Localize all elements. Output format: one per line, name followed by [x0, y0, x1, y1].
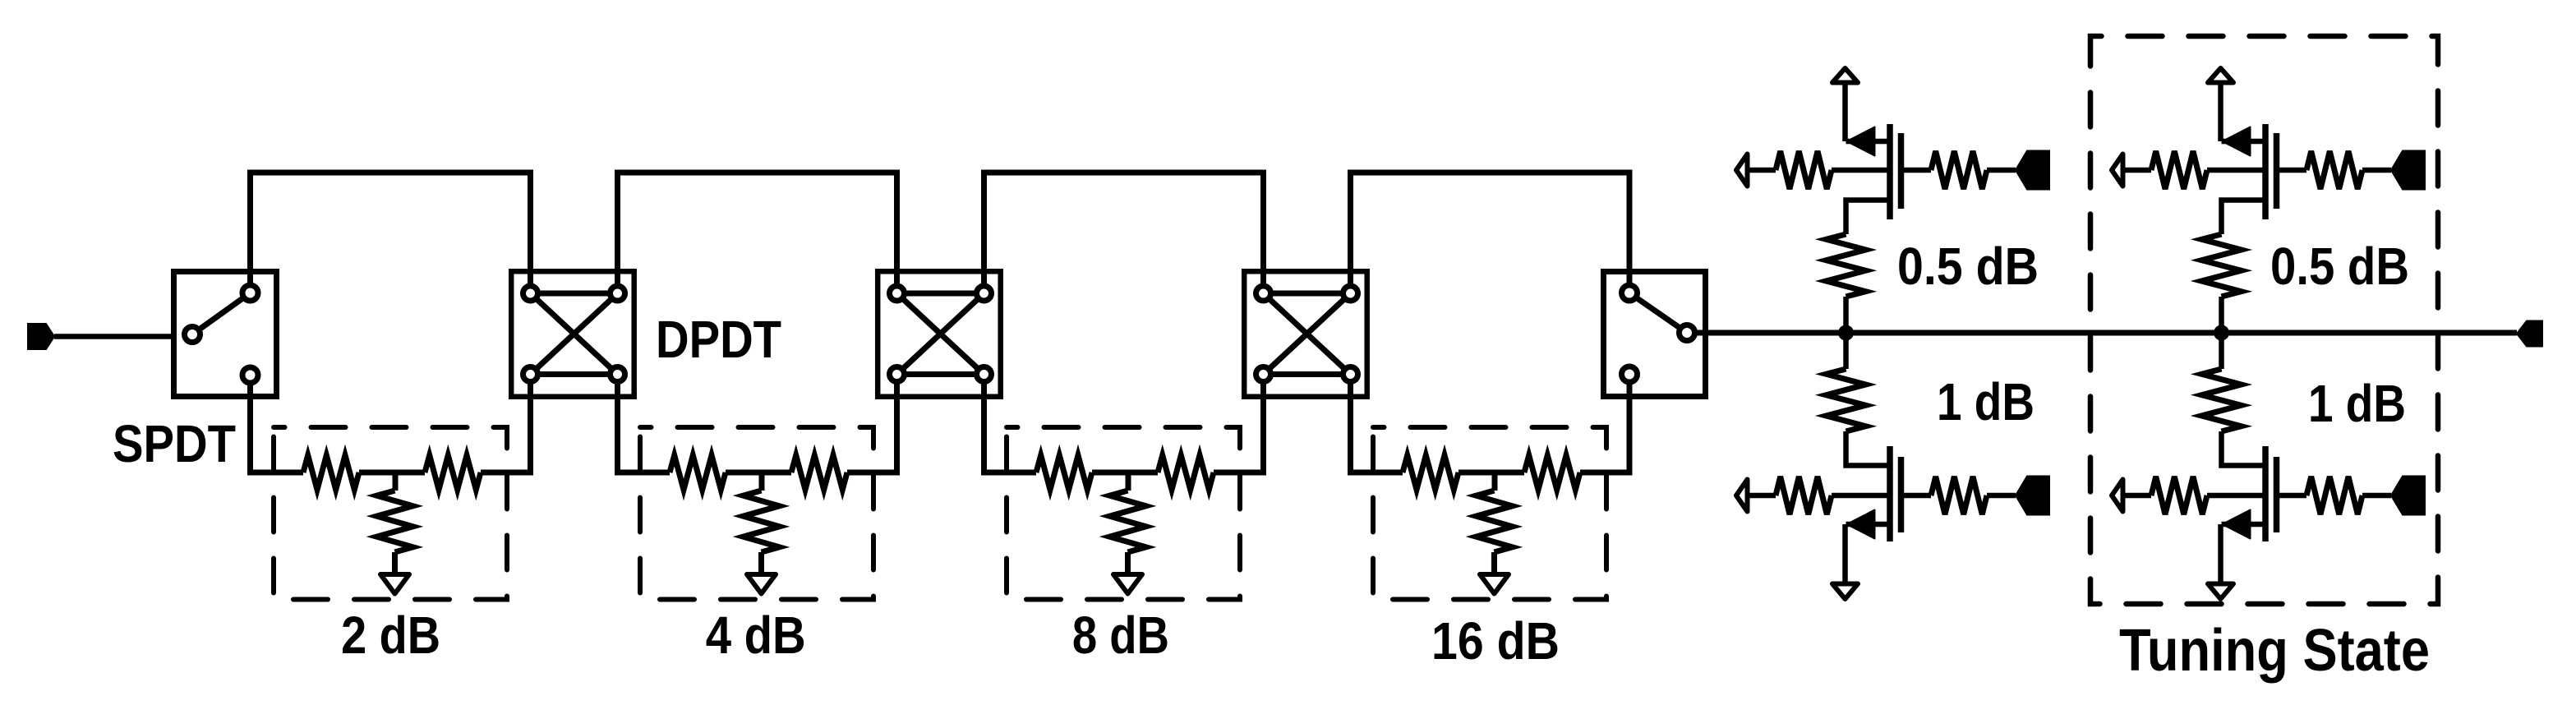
svg-text:16 dB: 16 dB — [1431, 611, 1560, 670]
wire R7 to R8 (node) — [1092, 470, 1158, 476]
svg-text:0.5 dB: 0.5 dB — [2270, 237, 2409, 296]
resistor gate lower tune-A — [1931, 477, 1987, 514]
node junction tune-A — [1838, 325, 1854, 341]
svg-text:8 dB: 8 dB — [1072, 606, 1169, 665]
resistor body bias upper tune-A — [1776, 151, 1832, 189]
arrow left (body bias) upper tune-B — [2112, 154, 2123, 187]
resistor R2 (series) — [425, 455, 481, 490]
arrow down (drain feed) tune-B — [2218, 524, 2223, 584]
resistor R3 (shunt) — [393, 472, 399, 491]
transistor M2b (lower shunt FET) — [2222, 446, 2307, 541]
resistor R10 (series) — [1403, 455, 1459, 490]
svg-text:Tuning State: Tuning State — [2119, 618, 2430, 684]
resistor R8 (series) — [1158, 455, 1214, 490]
wire bypass (thru path) stage 2 — [618, 173, 897, 293]
resistor gate lower tune-B — [2306, 477, 2362, 514]
wire R1 to R2 (node) — [359, 470, 425, 476]
svg-text:1 dB: 1 dB — [2308, 374, 2406, 433]
resistor gate upper tune-A — [1931, 151, 1987, 189]
resistor R11 (series) — [1524, 455, 1580, 490]
resistor gate upper tune-B — [2306, 151, 2362, 189]
resistor R12 (shunt) — [1492, 472, 1498, 491]
wire node to shunt resistor lower tune-A — [1843, 333, 1849, 369]
svg-text:0.5 dB: 0.5 dB — [1897, 237, 2039, 296]
wire body resistor to channel upper tune-B — [2207, 168, 2265, 173]
wire node to shunt resistor upper tune-B — [2219, 297, 2224, 333]
wire R2 to stage 1 right port — [481, 375, 531, 473]
input port RF-in terminal — [28, 324, 54, 349]
resistor R7 (series) — [1036, 455, 1092, 490]
svg-text:2 dB: 2 dB — [341, 606, 440, 665]
wire resistor to M2a source tune-B — [2222, 200, 2266, 235]
wire resistor to M1a source tune-A — [1846, 200, 1891, 235]
control terminal Vc lower tune-A — [2016, 477, 2049, 515]
wire stage 1 left port to R1 — [251, 375, 304, 473]
ground stage 4 — [1480, 574, 1509, 594]
switch S5 (SPDT output switch) — [1604, 272, 1706, 397]
wire input to S1 — [54, 334, 173, 339]
control terminal Vc lower tune-B — [2391, 477, 2425, 515]
transistor M1a (upper shunt FET) — [1846, 124, 1932, 219]
transistor M2a (upper shunt FET) — [2222, 124, 2307, 219]
resistor R6 (shunt) — [759, 472, 765, 491]
resistor R1 (series) — [303, 455, 359, 490]
arrow left (body bias) lower tune-A — [1736, 480, 1748, 512]
wire gate resistor to control terminal lower tune-B — [2362, 493, 2391, 499]
transistor M1b (lower shunt FET) — [1846, 446, 1932, 541]
output port RF-out terminal — [2517, 321, 2542, 347]
wire node to shunt resistor lower tune-B — [2219, 333, 2224, 369]
resistor body bias lower tune-B — [2151, 477, 2207, 514]
resistor 0.5dB shunt tune-B — [2202, 234, 2242, 297]
resistor body bias lower tune-A — [1776, 477, 1832, 514]
wire R10 to R11 (node) — [1459, 470, 1524, 476]
arrow up (drain feed) tune-B — [2218, 83, 2223, 142]
switch S1 (SPDT input switch) — [174, 272, 277, 397]
wire R4 to R5 (node) — [726, 470, 791, 476]
attenuator block outline stage 4 (dashed) — [1373, 427, 1606, 600]
wire stage 3 left port to R7 — [984, 375, 1037, 473]
attenuator block outline stage 3 (dashed) — [1007, 427, 1240, 600]
wire gate resistor to control terminal lower tune-A — [1987, 493, 2016, 499]
resistor body bias upper tune-B — [2151, 151, 2207, 189]
wire R8 to stage 3 right port — [1214, 375, 1264, 473]
resistor 1dB shunt tune-B — [2202, 369, 2242, 431]
arrow left (body bias) upper tune-A — [1736, 154, 1748, 187]
wire node to shunt resistor upper tune-A — [1843, 297, 1849, 333]
resistor R4 (series) — [670, 455, 726, 490]
wire R11 to stage 4 right port — [1580, 375, 1629, 473]
control terminal Vc upper tune-A — [2016, 151, 2049, 190]
wire resistor to M1b source tune-A — [1846, 431, 1891, 466]
wire stage 2 left port to R4 — [618, 375, 670, 473]
svg-text:DPDT: DPDT — [656, 310, 781, 369]
resistor 1dB shunt tune-A — [1827, 369, 1866, 431]
wire body resistor to channel lower tune-B — [2207, 493, 2265, 499]
wire bypass (thru path) stage 4 — [1351, 173, 1630, 293]
resistor R5 (series) — [791, 455, 847, 490]
wire gate resistor to control terminal upper tune-B — [2362, 168, 2391, 173]
node junction tune-B — [2214, 325, 2229, 341]
svg-text:SPDT: SPDT — [113, 414, 236, 473]
wire main output line — [1693, 330, 2517, 336]
wire stage 4 left port to R10 — [1351, 375, 1403, 473]
wire R5 to stage 2 right port — [847, 375, 897, 473]
wire resistor to M2b source tune-B — [2222, 431, 2266, 466]
attenuator block outline stage 1 (dashed) — [274, 427, 507, 600]
arrow up (drain feed) tune-A — [1842, 83, 1848, 142]
wire body resistor to channel lower tune-A — [1832, 493, 1890, 499]
wire bypass (thru path) stage 1 — [251, 173, 531, 293]
control terminal Vc upper tune-B — [2391, 151, 2425, 190]
ground stage 3 — [1113, 574, 1142, 594]
resistor 0.5dB shunt tune-A — [1827, 234, 1866, 297]
wire gate resistor to control terminal upper tune-A — [1987, 168, 2016, 173]
ground stage 1 — [380, 574, 409, 594]
ground stage 2 — [747, 574, 776, 594]
svg-text:4 dB: 4 dB — [706, 606, 806, 665]
arrow left (body bias) lower tune-B — [2112, 480, 2123, 512]
arrow down (drain feed) tune-A — [1842, 524, 1848, 584]
switch S2 (DPDT crossover) — [511, 271, 634, 397]
switch S3 (DPDT crossover) — [878, 271, 1001, 397]
svg-text:1 dB: 1 dB — [1937, 372, 2035, 431]
switch S4 (DPDT crossover) — [1244, 271, 1367, 397]
tuning state block outline (dashed) — [2090, 36, 2438, 604]
wire body resistor to channel upper tune-A — [1832, 168, 1890, 173]
attenuator block outline stage 2 (dashed) — [640, 427, 873, 600]
wire bypass (thru path) stage 3 — [984, 173, 1264, 293]
resistor R9 (shunt) — [1126, 472, 1131, 491]
